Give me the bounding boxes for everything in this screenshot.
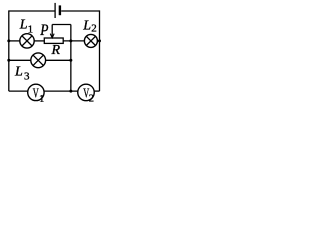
svg-text:L: L (14, 64, 23, 79)
voltmeter V2 body (78, 84, 95, 101)
label V2 in voltmeter (83, 87, 94, 105)
wire left side (8, 10, 10, 91)
wire vertical bus (70, 25, 72, 92)
wire lamp L1 to rheostat R (34, 40, 44, 42)
node junction bus bottom row (69, 90, 72, 93)
node junction left third row (7, 59, 10, 62)
svg-text:2: 2 (89, 94, 94, 103)
wire top-left segment (9, 10, 55, 12)
lamp L3 (31, 53, 46, 68)
wire third row to lamp L3 (9, 59, 31, 61)
voltmeter V1 body (28, 84, 44, 100)
svg-text:P: P (39, 22, 48, 39)
lamp L1 (20, 34, 34, 48)
wire rheostat to lamp L2 (63, 40, 84, 42)
wire middle row to lamp L1 (9, 40, 20, 42)
wire right side (99, 10, 101, 91)
node junction bus third row (69, 59, 72, 62)
label V1 in voltmeter (33, 87, 45, 106)
node junction bus middle row (69, 39, 72, 42)
svg-text:1: 1 (28, 23, 33, 35)
wire bottom to voltmeter V1 (9, 90, 28, 92)
wire V1 to vertical bus junction (44, 90, 78, 92)
label L3 (14, 64, 30, 82)
svg-text:R: R (51, 43, 61, 58)
wire lamp L2 to right side (97, 40, 99, 42)
battery cell short thick plate (59, 5, 61, 15)
wiper arrow P (50, 25, 54, 38)
battery cell long thin plate (54, 3, 56, 18)
wire top-right segment (61, 10, 99, 12)
label L1 (19, 18, 33, 36)
svg-text:L: L (19, 18, 28, 33)
wire wiper to vertical bus (52, 24, 71, 26)
svg-text:L: L (82, 18, 91, 33)
svg-text:2: 2 (91, 23, 97, 35)
lamp L2 (84, 34, 97, 47)
svg-text:1: 1 (39, 94, 44, 102)
svg-text:V: V (33, 87, 39, 102)
node junction right middle row (98, 39, 101, 42)
rheostat R box (44, 38, 63, 43)
svg-text:3: 3 (24, 71, 30, 83)
wire lamp L3 to vertical bus (46, 59, 71, 61)
label L2 (82, 18, 97, 34)
wire V2 to right side (94, 90, 99, 92)
node junction left middle row (7, 39, 10, 42)
